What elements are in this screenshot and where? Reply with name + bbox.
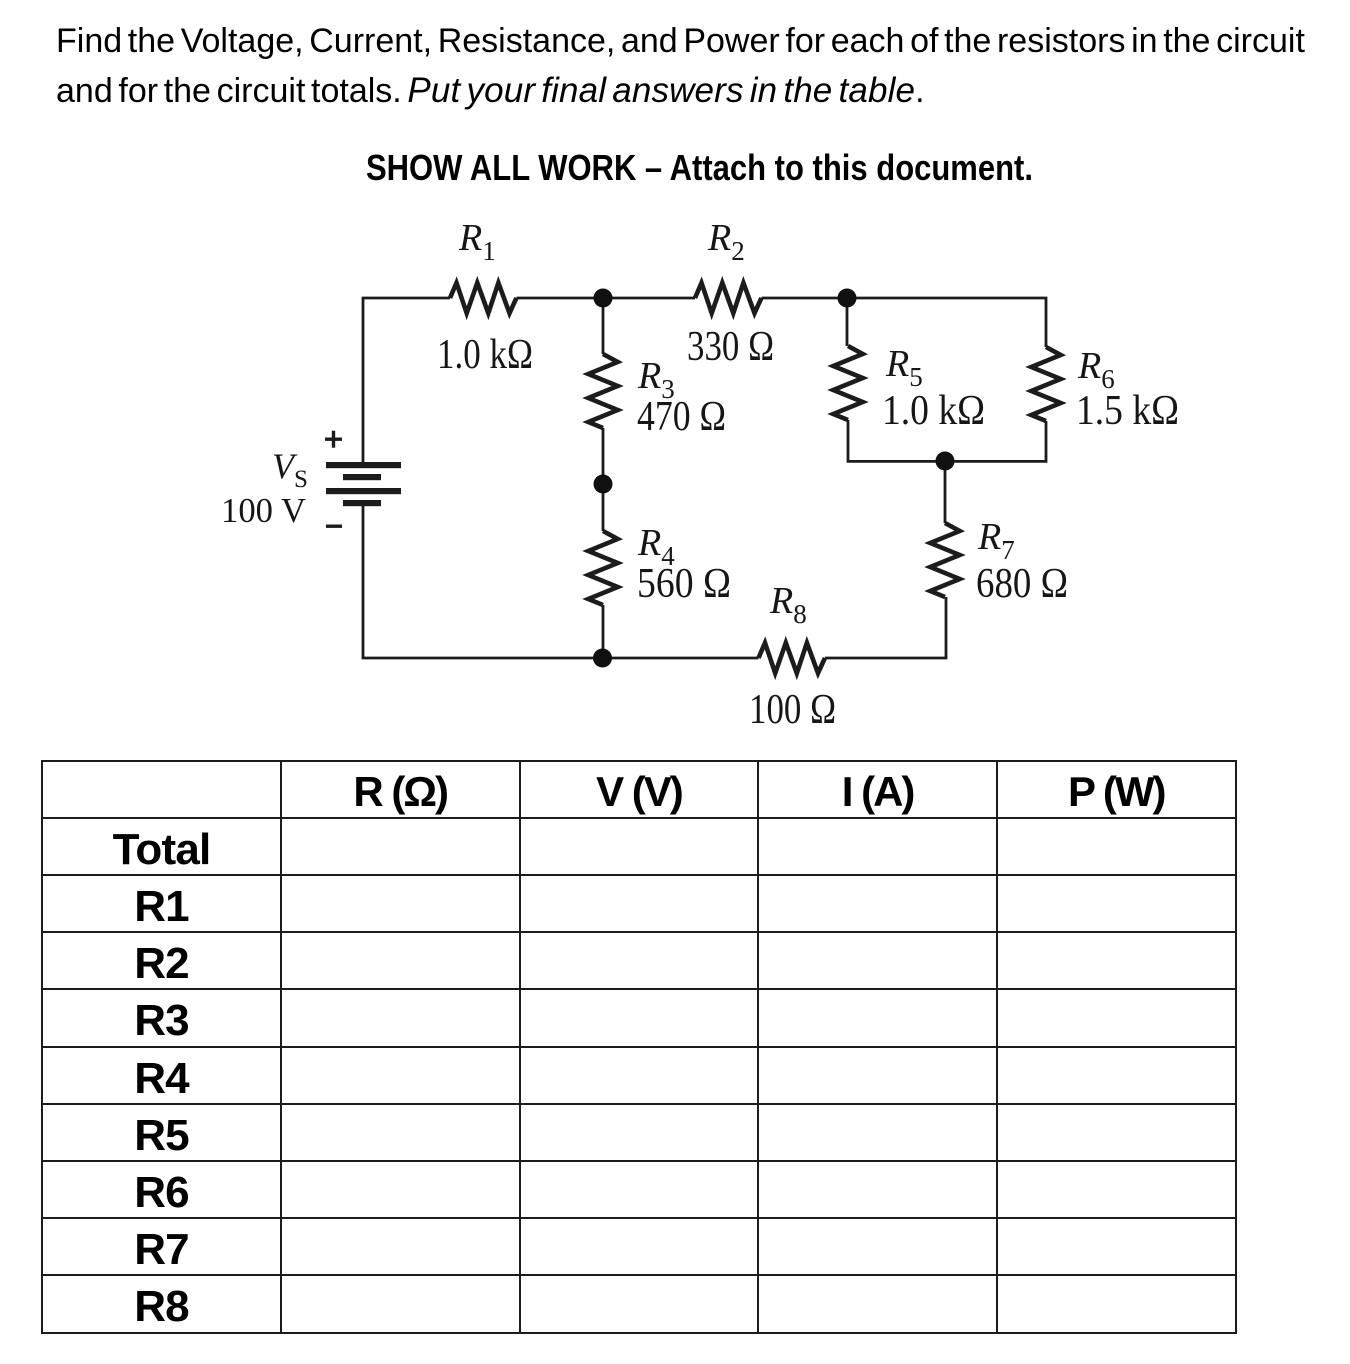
svg-text:R1: R1 (458, 217, 496, 266)
svg-text:1.0 kΩ: 1.0 kΩ (882, 388, 985, 434)
svg-text:R2: R2 (707, 217, 745, 266)
svg-text:R8: R8 (769, 580, 807, 629)
svg-text:R6: R6 (1077, 345, 1115, 394)
svg-text:470 Ω: 470 Ω (637, 394, 726, 440)
svg-text:560 Ω: 560 Ω (637, 561, 731, 607)
svg-text:R5: R5 (885, 343, 923, 392)
svg-text:1.0 kΩ: 1.0 kΩ (437, 332, 533, 378)
svg-text:1.5 kΩ: 1.5 kΩ (1076, 388, 1179, 434)
svg-text:VS: VS (272, 446, 308, 493)
svg-text:100 V: 100 V (221, 491, 306, 530)
svg-text:330 Ω: 330 Ω (687, 324, 774, 370)
svg-text:R7: R7 (977, 516, 1015, 565)
svg-text:680 Ω: 680 Ω (976, 561, 1068, 607)
svg-text:100 Ω: 100 Ω (749, 687, 836, 733)
